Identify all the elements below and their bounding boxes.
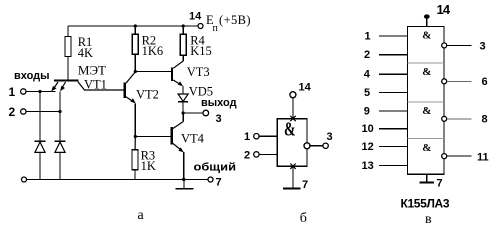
svg-text:2: 2 xyxy=(364,49,370,61)
svg-text:4: 4 xyxy=(364,69,371,81)
transistor VT1 (multi-emitter) xyxy=(51,81,123,92)
label pin 2 (part a) xyxy=(9,105,16,119)
gate U1 pin 14 terminal (part b) xyxy=(290,92,296,98)
wire IC pin 2 xyxy=(379,54,408,56)
wire VT3 emitter to VD5 xyxy=(182,86,184,94)
svg-text:VT2: VT2 xyxy=(136,88,159,102)
wire IC pin 12 xyxy=(379,146,408,148)
svg-text:10: 10 xyxy=(362,123,374,135)
label IC pin 1 xyxy=(365,31,371,43)
label IC pin 4 xyxy=(364,69,371,81)
wire emitter2 drop xyxy=(59,92,61,112)
label pin 1 (part a) xyxy=(9,85,16,99)
terminal pin 14 (power, part a) xyxy=(198,24,203,29)
wire IC output 6 xyxy=(447,80,472,82)
label pin 14 (part b) xyxy=(299,82,312,94)
node R2/VT2 collector xyxy=(134,70,137,73)
svg-text:общий: общий xyxy=(194,162,237,174)
inversion bubble xyxy=(304,143,310,149)
svg-text:VT1: VT1 xyxy=(84,77,107,91)
IC section divider 1 xyxy=(408,62,445,64)
svg-text:выход: выход xyxy=(201,97,237,109)
wire IC pin 5 xyxy=(379,92,408,94)
diode VD1 (input clamp) xyxy=(35,141,46,179)
label inputs xyxy=(14,70,50,82)
label gate pin 7 xyxy=(302,179,308,191)
label R4 value xyxy=(190,34,212,59)
svg-text:&: & xyxy=(422,66,431,78)
wire IC pin 7 xyxy=(426,174,428,182)
node input1/diode junction xyxy=(38,90,41,93)
svg-text:3: 3 xyxy=(216,113,222,125)
non-logic pin mark (bottom) xyxy=(290,164,295,169)
node R3/VT4 base xyxy=(134,135,137,138)
svg-text:1K6: 1K6 xyxy=(142,44,164,58)
wire input 1 xyxy=(26,91,55,93)
svg-text:14: 14 xyxy=(189,11,202,23)
gate U1 body xyxy=(277,119,307,167)
label IC pin 12 xyxy=(362,141,374,153)
svg-text:К155ЛА3: К155ЛА3 xyxy=(401,197,450,211)
IC output bubble 8 xyxy=(442,116,447,121)
svg-text:6: 6 xyxy=(482,76,488,88)
label common xyxy=(194,162,237,174)
wire IC output 11 xyxy=(447,155,472,157)
IC section divider 3 xyxy=(408,137,445,139)
wire IC pin 1 xyxy=(379,35,408,37)
label R2 value xyxy=(142,34,164,59)
terminal gate output 3 xyxy=(323,143,328,148)
label IC output 6 xyxy=(482,76,488,88)
label IC output 11 xyxy=(477,151,489,163)
svg-text:5: 5 xyxy=(364,87,370,99)
wire VT4 base xyxy=(135,136,170,138)
wire power rail +5V xyxy=(68,25,198,27)
wire IC pin 9 xyxy=(379,110,408,112)
svg-text:&: & xyxy=(284,119,296,141)
wire output node to VT4 collector xyxy=(182,113,184,122)
transistor VT2 xyxy=(125,72,136,104)
svg-text:4K: 4K xyxy=(78,46,93,60)
svg-text:б: б xyxy=(300,211,307,226)
non-logic pin mark (top) xyxy=(290,116,295,121)
label VT3 xyxy=(187,65,210,79)
wire IC output 8 xyxy=(447,118,472,120)
label R3 value xyxy=(141,149,156,174)
label Ep +5V xyxy=(206,13,251,34)
wire IC pin 10 xyxy=(379,128,408,130)
IC output bubble 11 xyxy=(442,154,447,159)
label VT1 xyxy=(84,77,107,91)
terminal input 1 xyxy=(21,89,26,94)
resistor R2 1K6 xyxy=(132,26,138,72)
svg-text:VT4: VT4 xyxy=(181,132,205,146)
wire IC pin 4 xyxy=(379,73,408,75)
node VT4 emitter on rail xyxy=(182,178,185,181)
label IC pin 5 xyxy=(364,87,370,99)
node R2 tap on rail xyxy=(134,24,137,27)
svg-text:2: 2 xyxy=(9,105,16,119)
label IC pin 2 xyxy=(364,49,370,61)
label IC pin 13 xyxy=(362,160,374,172)
node output xyxy=(182,111,185,114)
IC body K155LA3 xyxy=(408,27,445,175)
svg-text:14: 14 xyxy=(299,82,312,94)
label IC output 3 xyxy=(480,40,486,52)
svg-text:2: 2 xyxy=(244,149,250,161)
svg-text:&: & xyxy=(422,29,431,41)
terminal gate input 2 xyxy=(254,152,259,157)
label gate pin 1 xyxy=(244,131,250,143)
wire IC output 3 xyxy=(447,44,472,46)
svg-text:VT3: VT3 xyxy=(187,65,210,79)
svg-text:14: 14 xyxy=(437,2,451,17)
svg-text:8: 8 xyxy=(482,113,488,125)
label pin 3 (part a) xyxy=(216,113,222,125)
svg-text:&: & xyxy=(422,105,431,117)
IC pin 14 dot (part c) xyxy=(424,14,430,18)
wire input 2 xyxy=(26,111,60,113)
IC output bubble 3 xyxy=(442,43,447,48)
node input2/diode junction xyxy=(58,110,61,113)
label part b xyxy=(300,211,307,226)
label IC pin 9 xyxy=(364,105,370,117)
terminal output 3 xyxy=(203,110,209,116)
ground symbol (part a) xyxy=(176,180,194,189)
label IC pin 10 xyxy=(362,123,374,135)
wire pin 7 to ground (part b) xyxy=(292,166,294,188)
svg-text:3: 3 xyxy=(327,131,333,143)
diode VD5 xyxy=(178,94,188,113)
IC gate symbol & 1 xyxy=(422,29,431,41)
wire to VT3 base xyxy=(135,71,171,73)
transistor VT4 xyxy=(172,122,184,153)
wire IC pin 13 xyxy=(379,164,408,166)
svg-text:а: а xyxy=(138,208,145,223)
node R4 tap on rail xyxy=(182,24,185,27)
terminal gate input 1 xyxy=(254,134,259,139)
label IC pin 14 xyxy=(437,2,451,17)
wire IC pin 14 xyxy=(426,19,428,27)
terminal ground rail left end xyxy=(22,177,27,182)
svg-text:9: 9 xyxy=(364,105,370,117)
IC section divider 2 xyxy=(408,101,445,103)
label IC pin 7 xyxy=(437,178,443,190)
resistor R3 1K xyxy=(132,137,138,180)
svg-text:1: 1 xyxy=(244,131,250,143)
svg-text:1: 1 xyxy=(9,85,16,99)
label pin 14 (part a) xyxy=(189,11,202,23)
label output xyxy=(201,97,237,109)
gate function symbol & xyxy=(284,119,296,141)
wire gate input 2 xyxy=(259,153,277,155)
svg-text:1: 1 xyxy=(365,31,371,43)
svg-text:13: 13 xyxy=(362,160,374,172)
svg-text:7: 7 xyxy=(437,178,443,190)
resistor R1 4K xyxy=(65,26,71,79)
label part a xyxy=(138,208,145,223)
svg-text:12: 12 xyxy=(362,141,374,153)
IC gate symbol & 2 xyxy=(422,66,431,78)
label K155LA3 xyxy=(401,197,450,211)
wire VT2 emitter to R3 xyxy=(134,103,136,136)
label R1 value xyxy=(78,35,93,60)
diode VD2 (input clamp) xyxy=(55,141,66,179)
svg-text:(+5В): (+5В) xyxy=(219,13,251,27)
svg-text:3: 3 xyxy=(480,40,486,52)
svg-text:7: 7 xyxy=(216,177,222,189)
label pin 7 (part a) xyxy=(216,177,222,189)
IC output bubble 6 xyxy=(442,79,447,84)
label IC output 8 xyxy=(482,113,488,125)
label gate pin 2 xyxy=(244,149,250,161)
wire ground rail xyxy=(27,179,208,181)
label MET xyxy=(78,63,106,78)
IC gate symbol & 4 xyxy=(422,142,431,154)
wire pin14 to gate xyxy=(292,98,294,119)
svg-text:1K: 1K xyxy=(141,159,156,173)
ground symbol (part b) xyxy=(283,187,301,189)
ground symbol (part c) xyxy=(420,182,435,184)
svg-text:&: & xyxy=(422,142,431,154)
wire diode VD1 feed xyxy=(39,92,41,142)
wire gate input 1 xyxy=(259,135,277,137)
wire gate output xyxy=(310,145,323,147)
wire output xyxy=(183,112,203,114)
label VT4 xyxy=(181,132,205,146)
wire diode VD2 feed xyxy=(59,112,61,142)
terminal input 2 xyxy=(21,109,26,114)
svg-text:7: 7 xyxy=(302,179,308,191)
svg-text:11: 11 xyxy=(477,151,489,163)
label VT2 xyxy=(136,88,159,102)
label gate pin 3 xyxy=(327,131,333,143)
svg-text:п: п xyxy=(213,23,219,34)
label part v xyxy=(425,212,432,227)
IC gate symbol & 3 xyxy=(422,105,431,117)
wire VT4 emitter to ground rail xyxy=(183,152,185,180)
svg-text:в: в xyxy=(425,212,432,227)
svg-text:МЭТ: МЭТ xyxy=(78,63,106,78)
svg-text:K15: K15 xyxy=(190,44,212,58)
terminal common pin 7 (part a) xyxy=(208,177,213,182)
svg-text:входы: входы xyxy=(14,70,50,82)
label VD5 xyxy=(189,84,213,98)
transistor VT3 xyxy=(172,61,183,86)
resistor R4 K15 xyxy=(180,26,186,61)
